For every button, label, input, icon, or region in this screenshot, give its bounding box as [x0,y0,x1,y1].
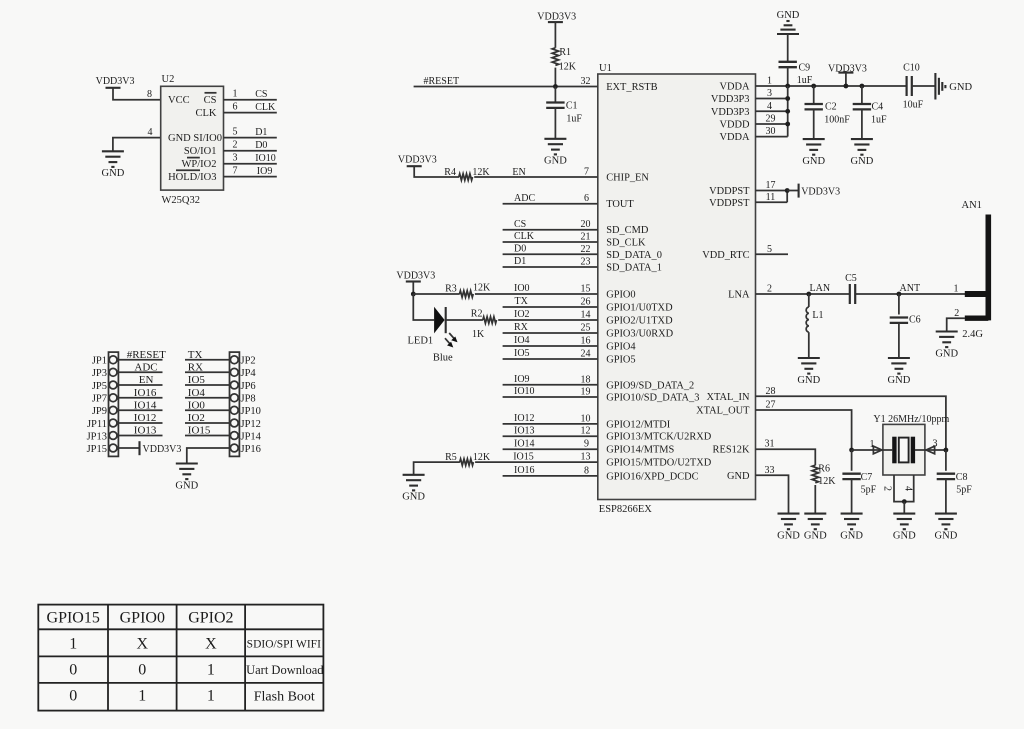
wire stub to VDD3V3 [787,190,798,192]
wire JP15 to VDD3V3 [118,447,139,449]
wire C9 to power rail [787,67,789,86]
svg-text:C1: C1 [566,101,578,112]
power VDD3V3 (R4/EN) [398,154,437,166]
svg-text:1: 1 [233,89,238,100]
wire JP6 net IO5 [185,374,230,386]
svg-text:VDDA: VDDA [719,132,750,143]
svg-text:SD_CLK: SD_CLK [606,238,646,249]
svg-text:IO15: IO15 [513,451,534,462]
svg-text:CS: CS [255,89,267,100]
jumper header right JP2-JP16 body [230,352,240,456]
node bus pin4 [785,109,790,114]
svg-text:2: 2 [882,486,893,491]
node LAN junction [806,292,811,297]
wire JP2 net TX [185,349,230,361]
wire JP8 net IO4 [185,387,230,399]
svg-text:Uart Download: Uart Download [246,663,324,677]
svg-text:C2: C2 [825,102,837,113]
node crystal right junction [944,448,949,453]
wire GND to U2 pin 4 [113,138,161,152]
wire net IO0 to U1 pin 15 [475,293,598,295]
wire net D1 to U1 pin 23 [503,266,598,268]
svg-text:VDD3V3: VDD3V3 [396,271,435,282]
svg-text:JP9: JP9 [92,406,107,417]
svg-text:R2: R2 [471,309,483,320]
wire VCC to U2 pin 8 [113,88,161,100]
svg-text:GPIO14/MTMS: GPIO14/MTMS [606,445,674,456]
svg-text:VDD3V3: VDD3V3 [143,444,182,455]
svg-text:RES12K: RES12K [713,445,750,456]
svg-text:GPIO10/SD_DATA_3: GPIO10/SD_DATA_3 [606,393,699,404]
power VDD3V3 (VDDPST, rotated bar) [799,184,840,198]
table row1 values 1 X X [69,636,217,653]
wire JP14 net IO15 [185,425,230,437]
ground (C10, rotated bars) [935,73,972,100]
svg-text:1: 1 [767,76,772,87]
svg-text:GPIO3/U0RXD: GPIO3/U0RXD [606,329,673,340]
svg-text:GND: GND [727,471,750,482]
svg-text:19: 19 [581,387,591,398]
capacitor C4 [853,104,871,109]
wire U1 pin 4 [756,110,788,112]
svg-text:10: 10 [581,413,591,424]
svg-text:33: 33 [765,465,775,476]
svg-text:1uF: 1uF [871,115,887,126]
svg-text:100nF: 100nF [824,115,850,126]
LED LED1 (triangle and cathode bar) [434,307,446,334]
svg-text:17: 17 [766,180,776,191]
svg-text:ANT: ANT [900,283,921,294]
svg-text:SO/IO1: SO/IO1 [184,146,217,157]
wire U1 pin 1 power rail to C10 [756,85,908,87]
resistor R6 [812,465,818,483]
svg-text:GPIO4: GPIO4 [606,342,636,353]
svg-text:1uF: 1uF [566,113,582,124]
svg-text:VDD3V3: VDD3V3 [96,76,135,87]
capacitor C2 [805,104,823,109]
svg-text:29: 29 [766,114,776,125]
power VDD3V3 (rail) [828,63,867,74]
svg-text:JP2: JP2 [241,356,256,367]
svg-text:GND: GND [949,82,972,93]
ground (R6) [804,514,827,542]
svg-text:CLK: CLK [255,102,276,113]
svg-text:R6: R6 [818,464,830,475]
ground (C2) [802,139,825,167]
wire JP5 net EN [118,374,162,386]
svg-text:XTAL_IN: XTAL_IN [706,392,750,403]
svg-text:R5: R5 [445,452,457,463]
svg-text:ADC: ADC [514,193,535,204]
wire right junction to C8 [945,450,947,471]
svg-text:GPIO13/MTCK/U2RXD: GPIO13/MTCK/U2RXD [606,432,712,443]
svg-text:18: 18 [581,374,591,385]
wire U2 pin 1 net CS [224,99,277,101]
ESP8266EX chip U1 body [598,74,756,500]
wire net CS to U1 pin 20 [503,229,598,231]
inductor L1 [806,307,809,332]
jumper pin JP5 [92,381,117,392]
svg-text:CHIP_EN: CHIP_EN [606,173,649,184]
svg-text:JP13: JP13 [87,431,107,442]
svg-text:5: 5 [767,244,772,255]
svg-text:R1: R1 [559,47,571,58]
svg-text:3: 3 [933,438,938,449]
ground (R5) [402,475,425,503]
power VDD3V3 (R3/LED) [396,271,435,282]
svg-text:9: 9 [584,439,589,450]
jumper pin JP6 [230,381,255,392]
svg-text:23: 23 [581,257,591,268]
svg-text:GPIO12/MTDI: GPIO12/MTDI [606,419,671,430]
svg-text:GPIO0: GPIO0 [120,610,165,627]
wire VDDPST bus vertical [786,191,788,203]
svg-text:12: 12 [581,426,591,437]
boot mode table [38,605,323,711]
svg-text:AN1: AN1 [962,200,982,211]
jumper pin JP8 [230,394,255,405]
svg-text:3: 3 [233,152,238,163]
svg-text:C10: C10 [903,62,920,73]
svg-text:IO12: IO12 [134,412,157,424]
svg-text:Flash Boot: Flash Boot [254,690,315,705]
svg-text:U1: U1 [599,63,612,74]
svg-text:1uF: 1uF [797,75,813,86]
wire net TX to U1 pin 26 [503,306,598,308]
wire net IO10 to U1 pin 19 [503,396,598,398]
svg-text:7: 7 [233,165,238,176]
svg-text:2.4G: 2.4G [962,329,983,340]
wire U1 pin 31 to R6 [756,449,816,465]
jumper pin JP1 [92,356,117,367]
ground (C6) [888,358,911,386]
svg-text:2: 2 [767,284,772,295]
wire JP11 net IO12 [118,412,162,424]
svg-text:GPIO5: GPIO5 [606,355,635,366]
svg-text:3: 3 [767,88,772,99]
svg-text:26: 26 [581,297,591,308]
svg-text:5: 5 [233,126,238,137]
wire crystal pin 3 to right junction [915,449,946,451]
wire net IO16 to U1 pin 8 [503,475,598,477]
wire R1 to node RESET [554,68,556,87]
svg-text:32: 32 [581,76,591,87]
capacitor C7 [842,474,860,479]
wire left junction to crystal pin 1 [852,449,893,451]
ground (U1 pin 33) [777,514,800,542]
svg-text:IO16: IO16 [514,465,535,476]
svg-text:0: 0 [69,662,77,679]
wire JP1 net #RESET [118,349,166,361]
resistor R4 [459,174,473,180]
svg-text:JP6: JP6 [241,381,256,392]
wire U2 pin 6 net CLK [224,112,277,114]
svg-text:IO5: IO5 [514,348,530,359]
U2 pin name CS (active low) [204,93,217,106]
svg-text:IO4: IO4 [514,335,530,346]
wire U1 pin 3 [756,98,788,100]
svg-text:IO13: IO13 [134,425,157,437]
svg-text:IO12: IO12 [514,413,535,424]
wire junction to ground [903,502,905,514]
jumper header left JP1-JP15 body [109,352,119,456]
wire LED cathode to R2 [446,319,483,321]
svg-text:D0: D0 [255,140,267,151]
svg-text:LAN: LAN [810,283,831,294]
wire antenna pin2 to ground [947,318,965,331]
svg-text:IO0: IO0 [188,400,206,412]
wire U1 pin 2 LNA to antenna [756,293,966,295]
wire net CLK to U1 pin 21 [503,241,598,243]
svg-text:VDDA: VDDA [719,82,750,93]
wire C7 to ground [851,479,853,513]
svg-text:LED1: LED1 [408,336,434,347]
U2 pin name HOLD/IO3 (active low) [168,170,216,183]
node rail-C2 junction [811,84,816,89]
wire C10 to chassis ground [912,85,935,87]
wire U1 pin 29 [756,123,788,125]
jumper pin JP9 [92,406,117,417]
svg-text:JP1: JP1 [92,356,107,367]
wire U1 pin 11 [756,201,788,203]
svg-text:C8: C8 [956,472,968,483]
svg-text:SD_CMD: SD_CMD [606,225,649,236]
ground (C4) [851,139,874,167]
svg-text:12K: 12K [559,62,577,73]
svg-text:Blue: Blue [433,353,453,364]
svg-text:JP8: JP8 [241,394,256,405]
svg-text:D1: D1 [514,256,526,267]
wire U1 pin 17 [756,190,788,192]
svg-text:CLK: CLK [514,231,535,242]
svg-text:WP/IO2: WP/IO2 [182,159,217,170]
node bus pin3 [785,96,790,101]
svg-text:25: 25 [581,323,591,334]
svg-text:12K: 12K [473,283,491,294]
node crystal left junction [849,448,854,453]
wire JP13 net IO13 [118,425,162,437]
wire C6 to ground [898,323,900,358]
LED1 emission arrows [445,333,458,348]
svg-text:C9: C9 [799,62,811,73]
jumper pin JP14 [230,431,261,442]
svg-text:EN: EN [139,374,154,386]
svg-text:JP10: JP10 [241,406,261,417]
node RESET junction [553,84,558,89]
svg-text:JP14: JP14 [241,431,262,442]
wire VDD3V3 stub to rail [845,73,847,86]
capacitor C10 (series) [907,76,912,96]
svg-text:0: 0 [138,662,146,679]
svg-text:D0: D0 [514,244,526,255]
jumper pin JP11 [87,419,117,430]
ground (C1) [544,139,567,167]
resistor R1 [552,48,558,66]
svg-text:ADC: ADC [134,362,157,374]
svg-text:4: 4 [903,486,914,491]
wire net IO15 to U1 pin 13 [475,461,598,463]
ground (L1) [797,358,820,386]
wire U2 pin 7 net IO9 [224,176,277,178]
U2 pin name WP/IO2 (active low) [182,158,217,170]
wire net ADC to U1 pin 6 [503,203,598,205]
svg-text:VDD3P3: VDD3P3 [711,107,750,118]
capacitor C6 [890,318,908,323]
svg-text:IO14: IO14 [134,400,157,412]
power VDD3V3 (JP15) rotated bar [140,441,182,455]
wire left junction to C7 [851,450,853,471]
svg-text:GND: GND [777,10,800,21]
wire JP16 to ground [187,448,230,464]
svg-text:LNA: LNA [728,290,750,301]
svg-text:GPIO0: GPIO0 [606,290,635,301]
wire net IO14 to U1 pin 9 [503,448,598,450]
svg-text:30: 30 [766,126,776,137]
antenna AN1 symbol [965,215,989,321]
node LED junction [411,292,416,297]
svg-text:U2: U2 [162,74,175,85]
svg-text:8: 8 [584,465,589,476]
capacitor C5 (series in LNA line) [850,283,855,305]
svg-text:JP11: JP11 [87,419,107,430]
wire C1 to ground [554,108,556,139]
wire JP3 net ADC [118,362,162,374]
svg-text:IO5: IO5 [188,374,206,386]
svg-text:IO0: IO0 [514,283,530,294]
wire node to R3 [413,293,459,295]
crystal Y1 body box [883,424,925,475]
crystal pin 1 arrow [873,446,882,454]
wire VDD3V3 to node LED [412,282,414,295]
svg-text:5pF: 5pF [956,485,972,496]
svg-text:R4: R4 [444,167,456,178]
svg-text:IO4: IO4 [188,387,206,399]
svg-text:#RESET: #RESET [424,76,460,87]
wire U1 pin 33 to ground [756,475,789,513]
node bus pin29 [785,122,790,127]
svg-text:IO9: IO9 [257,166,273,177]
svg-text:5pF: 5pF [861,485,877,496]
svg-text:SD_DATA_0: SD_DATA_0 [606,250,662,261]
wire net IO13 to U1 pin 12 [503,435,598,437]
svg-text:JP4: JP4 [241,368,257,379]
svg-text:VDDD: VDDD [719,120,750,131]
capacitor C1 [546,103,564,108]
svg-text:VDD3P3: VDD3P3 [711,94,750,105]
svg-text:RX: RX [514,322,529,333]
wire net #RESET to U1 pin 32 [414,86,598,88]
jumper pin JP15 [87,444,117,455]
svg-text:X: X [137,636,149,653]
svg-text:14: 14 [581,310,591,321]
svg-text:VDD3V3: VDD3V3 [398,154,437,165]
svg-text:JP7: JP7 [92,394,107,405]
svg-text:GPIO15/MTDO/U2TXD: GPIO15/MTDO/U2TXD [606,458,712,469]
resistor R3 [460,291,474,297]
ground (JP16) [175,464,198,492]
svg-text:W25Q32: W25Q32 [162,195,201,206]
svg-text:EN: EN [512,167,525,178]
svg-text:2: 2 [233,139,238,150]
wire GND to C9 [787,34,789,62]
svg-text:1: 1 [69,636,77,653]
svg-text:RX: RX [188,362,203,374]
wire LAN node to L1 [808,294,810,307]
wire VDD3V3 down to EN net [414,166,459,177]
svg-text:6: 6 [584,193,589,204]
svg-text:IO10: IO10 [255,153,276,164]
node rail-C4 junction [860,84,865,89]
svg-text:IO15: IO15 [188,425,211,437]
wire net IO2 to U1 pin 14 [498,319,598,321]
svg-text:VDDPST: VDDPST [709,198,750,209]
wire crystal pins 2 and 4 to ground [894,475,914,502]
node VDDPST junction [785,188,790,193]
ground (C8) [935,514,958,542]
svg-text:6: 6 [233,101,238,112]
jumper pin JP12 [230,419,261,430]
svg-text:31: 31 [765,439,775,450]
svg-text:JP12: JP12 [241,419,261,430]
ground (crystal) [893,514,916,542]
svg-text:JP16: JP16 [241,444,261,455]
svg-text:JP5: JP5 [92,381,107,392]
svg-text:C5: C5 [845,273,857,284]
wire net RX to U1 pin 25 [503,332,598,334]
flash chip U2 body [161,86,224,190]
ground (antenna pin2) [935,332,958,360]
svg-text:4: 4 [148,127,153,138]
svg-text:1: 1 [207,662,215,679]
resistor R5 [460,459,474,465]
capacitor C8 [937,474,955,479]
crystal Y1 element (plates and resonator) [894,437,913,464]
table row3 values 0 1 1 [69,688,215,705]
crystal pin 3 arrow [926,446,935,454]
svg-text:1: 1 [954,284,959,295]
power VDD3V3 (R1 pull-up) [537,12,576,23]
wire JP10 net IO0 [185,400,230,412]
jumper pin JP4 [230,368,256,379]
svg-text:IO16: IO16 [134,387,157,399]
svg-text:VDD3V3: VDD3V3 [537,12,576,23]
node ANT junction [897,292,902,297]
jumper pin JP10 [230,406,261,417]
svg-text:IO2: IO2 [188,412,205,424]
svg-text:JP15: JP15 [87,444,107,455]
svg-text:VCC: VCC [168,95,190,106]
wire rail to C2 [813,86,815,104]
wire U1 pin 5 VDD_RTC stub [756,253,789,255]
table row2 values 0 0 1 [69,662,215,679]
wire JP12 net IO2 [185,412,230,424]
svg-text:VDDPST: VDDPST [709,186,750,197]
wire net IO9 to U1 pin 18 [503,384,598,386]
power VDD3V3 (U2 VCC) [96,76,135,88]
wire U1 pin 28 XTAL_IN to crystal right [756,396,946,450]
wire U2 pin 5 net D1 [224,137,277,139]
svg-text:8: 8 [147,89,152,100]
wire C4 to ground [861,109,863,139]
svg-text:20: 20 [581,219,591,230]
jumper pin JP16 [230,444,261,455]
jumper pin JP3 [92,368,117,379]
resistor R2 [483,317,497,323]
svg-text:24: 24 [581,349,591,360]
svg-text:GPIO15: GPIO15 [47,610,100,627]
svg-text:GND SI/IO0: GND SI/IO0 [168,133,222,144]
svg-text:CS: CS [204,95,217,106]
